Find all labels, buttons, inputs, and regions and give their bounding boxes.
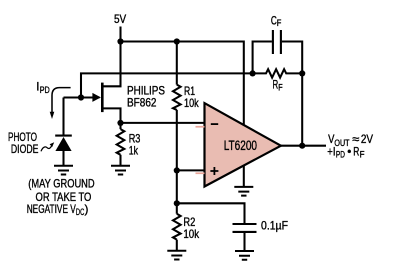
wire photodiode vertical top — [62, 98, 64, 135]
svg-text:R3: R3 — [129, 132, 141, 145]
svg-text:F: F — [277, 18, 282, 28]
resistor R2 — [173, 214, 181, 240]
arrowhead IPD — [50, 112, 55, 119]
svg-text:DC: DC — [76, 207, 85, 217]
ground under R2 — [167, 251, 186, 260]
ground under 0.1uF — [235, 251, 254, 260]
photodiode D1 cathode bar — [55, 135, 72, 137]
wire JFET source to minus node — [103, 108, 120, 123]
wire 5V rail to op-amp V+ pin — [121, 42, 244, 126]
ground under photodiode — [54, 166, 73, 175]
wire photodiode to gate node — [64, 96, 82, 98]
svg-text:OR TAKE TO: OR TAKE TO — [36, 191, 92, 204]
ground op-amp — [234, 187, 253, 196]
wire gate node feedback riser and top feedback line — [81, 73, 253, 97]
resistor R1 — [173, 85, 181, 110]
wire R1-R2 vertical — [176, 42, 178, 251]
svg-text:(MAY GROUND: (MAY GROUND — [28, 177, 94, 190]
wire plus input line — [177, 169, 205, 171]
op-amp plus sign — [210, 167, 218, 175]
svg-text:0.1µF: 0.1µF — [261, 220, 288, 233]
op-amp U1 LT6200 triangle — [205, 103, 281, 186]
node feedback right junction — [299, 70, 305, 76]
svg-text:10k: 10k — [183, 228, 199, 241]
svg-text:): ) — [85, 203, 89, 216]
svg-text:R: R — [353, 145, 359, 158]
transistor Q1 BF862 gate bar — [101, 83, 104, 113]
svg-text:10k: 10k — [184, 97, 199, 110]
node divider bypass junction — [174, 200, 180, 206]
node source-R3-minus junction — [117, 120, 123, 126]
svg-text:NEGATIVE V: NEGATIVE V — [27, 203, 76, 216]
resistor R3 — [117, 129, 125, 155]
op-amp minus sign — [211, 123, 218, 125]
wire op-amp ground pin — [243, 166, 245, 186]
svg-text:PHILIPS: PHILIPS — [127, 85, 165, 98]
squiggle arrowhead — [50, 142, 55, 147]
wire gate lead — [81, 96, 100, 98]
svg-text:PD: PD — [40, 85, 50, 95]
svg-text:BF862: BF862 — [127, 97, 157, 110]
node output junction — [299, 143, 305, 149]
svg-text:DIODE: DIODE — [11, 143, 39, 156]
wire JFET drain to rail — [103, 42, 120, 87]
wire photodiode anode to ground — [62, 151, 64, 165]
resistor RF — [253, 69, 303, 77]
capacitor C 0.1uF plates — [233, 224, 257, 232]
wire CF left branch — [253, 42, 272, 74]
node rail-R1 junction — [174, 38, 180, 44]
wire R3 leads — [119, 123, 121, 165]
squiggle pointer photodiode — [41, 146, 52, 151]
svg-text:1k: 1k — [129, 145, 138, 158]
svg-text:R2: R2 — [183, 216, 195, 229]
svg-text:F: F — [360, 149, 365, 159]
svg-text:LT6200: LT6200 — [224, 138, 257, 153]
node gate junction — [78, 94, 84, 100]
photodiode D1 triangle — [55, 137, 71, 151]
capacitor CF plates — [273, 30, 281, 54]
node feedback left junction — [250, 70, 256, 76]
op-amp pink tick plus — [196, 172, 205, 174]
svg-text:≈: ≈ — [352, 133, 360, 146]
svg-text:F: F — [278, 82, 283, 92]
transistor Q1 gate arrowhead — [92, 93, 101, 102]
svg-text:•: • — [347, 145, 351, 158]
wire 0.1uF top lead — [177, 203, 245, 223]
svg-text:PHOTO: PHOTO — [8, 131, 37, 144]
svg-text:2V: 2V — [361, 133, 373, 146]
wire output — [281, 145, 326, 147]
wire CF right branch to output — [282, 42, 302, 146]
svg-text:PD: PD — [336, 149, 345, 159]
node divider plus-input junction — [174, 167, 180, 173]
wire 0.1uF bottom lead — [243, 233, 245, 251]
node rail-drain junction — [117, 38, 123, 44]
ground under R3 — [111, 166, 130, 175]
op-amp pink tick minus — [196, 126, 205, 128]
wire 5V lead — [119, 27, 121, 42]
arrow IPD current — [52, 88, 71, 113]
svg-text:5V: 5V — [114, 13, 126, 26]
svg-text:+I: +I — [327, 145, 335, 158]
wire minus input line — [121, 122, 205, 124]
